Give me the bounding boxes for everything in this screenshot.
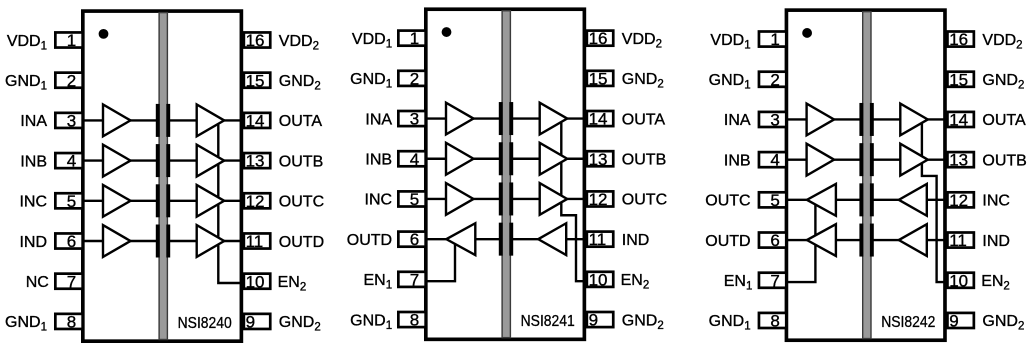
- pin 7 box: [55, 274, 82, 289]
- svg-text:6: 6: [67, 232, 76, 251]
- svg-text:10: 10: [589, 270, 608, 289]
- pin 10 box: [587, 272, 613, 287]
- wire channel C right half (barrier to pin): [168, 200, 242, 202]
- svg-text:9: 9: [589, 311, 598, 330]
- svg-text:OUTD: OUTD: [705, 233, 750, 250]
- svg-text:OUTC: OUTC: [705, 193, 750, 210]
- pin 16 box: [244, 32, 270, 47]
- wire channel A left half (pin to barrier): [83, 119, 159, 121]
- isolation barrier (gray bar) of U1: [159, 13, 167, 340]
- isolation capacitor plates, channel D: [499, 223, 503, 256]
- svg-text:11: 11: [589, 230, 607, 249]
- svg-text:1: 1: [410, 29, 419, 48]
- svg-text:15: 15: [246, 71, 265, 90]
- pin 3 box: [759, 112, 786, 127]
- svg-text:3: 3: [67, 112, 76, 131]
- pin 1 indicator dot of U3: [802, 28, 812, 38]
- wire channel B left half (pin to barrier): [83, 159, 159, 161]
- pin 11 box: [947, 233, 973, 248]
- svg-text:8: 8: [770, 312, 779, 331]
- svg-text:3: 3: [770, 111, 779, 130]
- wire channel B left half (pin to barrier): [426, 158, 502, 160]
- buffer channel D, side 1 (output, points left): [446, 223, 475, 255]
- buffer channel D, side 2 (input, points left): [538, 223, 566, 255]
- pin 1 box: [759, 32, 786, 47]
- svg-text:NC: NC: [26, 274, 49, 291]
- svg-text:OUTB: OUTB: [279, 153, 323, 170]
- buffer channel C, side 2 (input, points left): [899, 184, 927, 216]
- svg-text:1: 1: [770, 30, 779, 49]
- wire channel D right half (barrier to pin): [872, 239, 946, 241]
- wire channel B right half (barrier to pin): [872, 158, 946, 160]
- svg-text:2: 2: [410, 69, 419, 88]
- pin 1 indicator dot of U1: [99, 29, 109, 39]
- pin 10 box: [947, 273, 973, 288]
- pin 8 box: [759, 313, 786, 328]
- pin 6 box: [759, 233, 786, 248]
- isolation barrier (gray bar) of U3: [863, 12, 871, 339]
- pin 7 box: [398, 272, 425, 287]
- pin 15 box: [587, 71, 613, 86]
- buffer channel A, side 1 (input, points right): [807, 104, 835, 136]
- wire EN1 (pin 7 up to output buffer D): [426, 239, 456, 281]
- svg-text:14: 14: [246, 112, 265, 131]
- svg-text:16: 16: [949, 30, 968, 49]
- buffer channel C, side 1 (input, points right): [446, 183, 474, 215]
- svg-text:7: 7: [67, 272, 76, 291]
- isolation capacitor plates, channel A: [156, 104, 160, 137]
- svg-text:INC: INC: [365, 192, 393, 209]
- buffer channel D, side 1 (input, points right): [103, 225, 131, 257]
- pin 2 box: [759, 72, 786, 87]
- pin 4 box: [759, 152, 786, 167]
- wire EN2 enable chain (links right-side output buffers, jogs around reversed channel, to pin 10): [561, 119, 584, 282]
- isolation capacitor plates, channel C: [499, 182, 503, 215]
- svg-text:1: 1: [67, 31, 76, 50]
- buffer channel A, side 2 (output, points right): [540, 103, 568, 135]
- pin 9 box: [947, 313, 973, 328]
- wire channel C left half (pin to barrier): [83, 200, 159, 202]
- pin 13 box: [244, 153, 270, 168]
- svg-text:INA: INA: [365, 111, 392, 128]
- buffer channel D, side 1 (output, points left): [807, 224, 836, 256]
- svg-text:2: 2: [67, 71, 76, 90]
- pin 14 box: [244, 113, 270, 128]
- svg-text:5: 5: [410, 190, 419, 209]
- pin 4 box: [55, 153, 82, 168]
- svg-text:NSI8241: NSI8241: [521, 313, 575, 330]
- wire channel B right half (barrier to pin): [511, 158, 585, 160]
- svg-text:13: 13: [949, 151, 968, 170]
- wire channel A right half (barrier to pin): [872, 118, 946, 120]
- pin 5 box: [398, 191, 425, 206]
- IC body U3 (NSI8242, 16-pin SOIC outline): [786, 10, 945, 340]
- pin 12 box: [947, 192, 973, 207]
- buffer channel A, side 1 (input, points right): [103, 105, 131, 137]
- svg-text:INA: INA: [724, 112, 751, 129]
- svg-text:16: 16: [246, 31, 265, 50]
- wire EN2 enable chain (vertical, links output buffers A-D to pin 10): [218, 120, 241, 283]
- wire channel D right half (barrier to pin): [511, 238, 585, 240]
- pin 8 box: [398, 312, 425, 327]
- buffer channel B, side 2 (output, points right): [540, 143, 568, 175]
- svg-text:NSI8242: NSI8242: [881, 314, 935, 331]
- buffer channel C, side 1 (output, points left): [807, 184, 836, 216]
- isolation capacitor plates, channel B: [156, 144, 160, 177]
- svg-text:4: 4: [410, 150, 419, 169]
- svg-text:3: 3: [410, 110, 419, 129]
- pin 14 box: [587, 111, 613, 126]
- svg-text:NSI8240: NSI8240: [178, 315, 233, 332]
- svg-text:INB: INB: [20, 153, 47, 170]
- svg-text:OUTC: OUTC: [622, 192, 667, 209]
- pin 12 box: [587, 191, 613, 206]
- wire channel D left half (pin to barrier): [426, 238, 502, 240]
- pin 9 box: [244, 314, 270, 329]
- svg-text:6: 6: [770, 231, 779, 250]
- pin 13 box: [947, 152, 973, 167]
- isolation capacitor plates, channel B: [499, 142, 503, 175]
- svg-text:OUTB: OUTB: [622, 152, 666, 169]
- svg-text:6: 6: [410, 230, 419, 249]
- svg-text:IND: IND: [19, 234, 47, 251]
- svg-text:8: 8: [67, 313, 76, 332]
- pin 5 box: [759, 192, 786, 207]
- svg-text:OUTD: OUTD: [347, 232, 392, 249]
- wire channel C left half (pin to barrier): [786, 199, 862, 201]
- svg-text:OUTB: OUTB: [982, 152, 1026, 169]
- wire channel D left half (pin to barrier): [83, 240, 159, 242]
- svg-text:OUTC: OUTC: [279, 194, 324, 211]
- isolation capacitor plates, channel B: [859, 143, 863, 176]
- pin 16 box: [587, 31, 613, 46]
- svg-text:OUTA: OUTA: [622, 111, 666, 128]
- pin 15 box: [947, 72, 973, 87]
- svg-text:INC: INC: [982, 193, 1010, 210]
- svg-text:10: 10: [949, 271, 968, 290]
- buffer channel A, side 1 (input, points right): [446, 103, 474, 135]
- svg-text:2: 2: [770, 70, 779, 89]
- wire EN2 enable chain (links right-side output buffers, jogs around reversed channel, to pin 10): [922, 119, 945, 282]
- isolation capacitor plates, channel A: [859, 103, 863, 136]
- pin 6 box: [55, 233, 82, 248]
- svg-text:7: 7: [770, 271, 779, 290]
- svg-text:15: 15: [589, 69, 608, 88]
- pin 14 box: [947, 112, 973, 127]
- svg-text:13: 13: [589, 150, 608, 169]
- wire channel B right half (barrier to pin): [168, 159, 242, 161]
- svg-text:12: 12: [246, 192, 265, 211]
- isolation barrier (gray bar) of U2: [502, 11, 510, 338]
- svg-text:INA: INA: [20, 113, 47, 130]
- pin 11 box: [244, 233, 270, 248]
- pin 2 box: [55, 73, 82, 88]
- buffer channel B, side 2 (output, points right): [900, 144, 928, 176]
- svg-text:8: 8: [410, 311, 419, 330]
- svg-text:11: 11: [949, 231, 967, 250]
- buffer channel C, side 2 (output, points right): [540, 183, 568, 215]
- wire channel D left half (pin to barrier): [786, 239, 862, 241]
- buffer channel D, side 2 (output, points right): [197, 225, 225, 257]
- svg-text:INB: INB: [724, 152, 751, 169]
- svg-text:4: 4: [770, 151, 779, 170]
- buffer channel C, side 2 (output, points right): [197, 185, 225, 217]
- pin 3 box: [55, 113, 82, 128]
- pin 8 box: [55, 314, 82, 329]
- pin 5 box: [55, 193, 82, 208]
- isolation capacitor plates, channel A: [499, 102, 503, 135]
- wire channel C left half (pin to barrier): [426, 198, 502, 200]
- svg-text:OUTD: OUTD: [279, 234, 324, 251]
- svg-text:13: 13: [246, 152, 265, 171]
- pin 12 box: [244, 193, 270, 208]
- buffer channel A, side 2 (output, points right): [197, 105, 225, 137]
- isolation capacitor plates, channel D: [859, 224, 863, 257]
- isolation capacitor plates, channel C: [156, 184, 160, 217]
- wire channel A left half (pin to barrier): [786, 118, 862, 120]
- svg-text:4: 4: [67, 152, 76, 171]
- buffer channel A, side 2 (output, points right): [900, 104, 928, 136]
- buffer channel C, side 1 (input, points right): [103, 185, 131, 217]
- svg-text:INB: INB: [365, 152, 392, 169]
- svg-text:IND: IND: [622, 232, 650, 249]
- pin 7 box: [759, 273, 786, 288]
- svg-text:5: 5: [770, 191, 779, 210]
- svg-text:OUTA: OUTA: [279, 113, 323, 130]
- pin 13 box: [587, 151, 613, 166]
- svg-text:9: 9: [949, 312, 958, 331]
- svg-text:14: 14: [589, 110, 608, 129]
- wire channel A right half (barrier to pin): [511, 117, 585, 119]
- wire channel C right half (barrier to pin): [511, 198, 585, 200]
- svg-text:16: 16: [589, 29, 608, 48]
- pin 11 box: [587, 232, 613, 247]
- svg-text:14: 14: [949, 111, 968, 130]
- svg-text:12: 12: [589, 190, 608, 209]
- pin 10 box: [244, 274, 270, 289]
- pin 16 box: [947, 32, 973, 47]
- buffer channel B, side 1 (input, points right): [807, 144, 835, 176]
- pin 3 box: [398, 111, 425, 126]
- isolation capacitor plates, channel C: [859, 183, 863, 216]
- pin 1 box: [398, 31, 425, 46]
- svg-text:5: 5: [67, 192, 76, 211]
- buffer channel B, side 1 (input, points right): [446, 143, 474, 175]
- svg-text:IND: IND: [982, 233, 1010, 250]
- wire channel D right half (barrier to pin): [168, 240, 242, 242]
- IC body U1 (NSI8240, 16-pin SOIC outline): [83, 11, 242, 341]
- svg-text:7: 7: [410, 270, 419, 289]
- svg-text:INC: INC: [19, 194, 47, 211]
- svg-text:15: 15: [949, 70, 968, 89]
- pin 6 box: [398, 232, 425, 247]
- svg-text:9: 9: [246, 313, 255, 332]
- pin 1 box: [55, 32, 82, 47]
- svg-text:10: 10: [246, 272, 265, 291]
- pin 2 box: [398, 71, 425, 86]
- wire EN1 enable chain (vertical, links output buffers C-D to pin 7): [786, 200, 815, 282]
- svg-text:11: 11: [246, 232, 264, 251]
- wire channel B left half (pin to barrier): [786, 158, 862, 160]
- isolation capacitor plates, channel D: [156, 225, 160, 258]
- pin 4 box: [398, 151, 425, 166]
- wire channel C right half (barrier to pin): [872, 199, 946, 201]
- pin 1 indicator dot of U2: [442, 27, 452, 37]
- buffer channel D, side 2 (input, points left): [899, 224, 927, 256]
- buffer channel B, side 2 (output, points right): [197, 145, 225, 177]
- wire channel A left half (pin to barrier): [426, 117, 502, 119]
- wire channel A right half (barrier to pin): [168, 119, 242, 121]
- IC body U2 (NSI8241, 16-pin SOIC outline): [426, 9, 585, 339]
- pin 9 box: [587, 312, 613, 327]
- buffer channel B, side 1 (input, points right): [103, 145, 131, 177]
- pin 15 box: [244, 73, 270, 88]
- svg-text:OUTA: OUTA: [982, 112, 1026, 129]
- svg-text:12: 12: [949, 191, 968, 210]
